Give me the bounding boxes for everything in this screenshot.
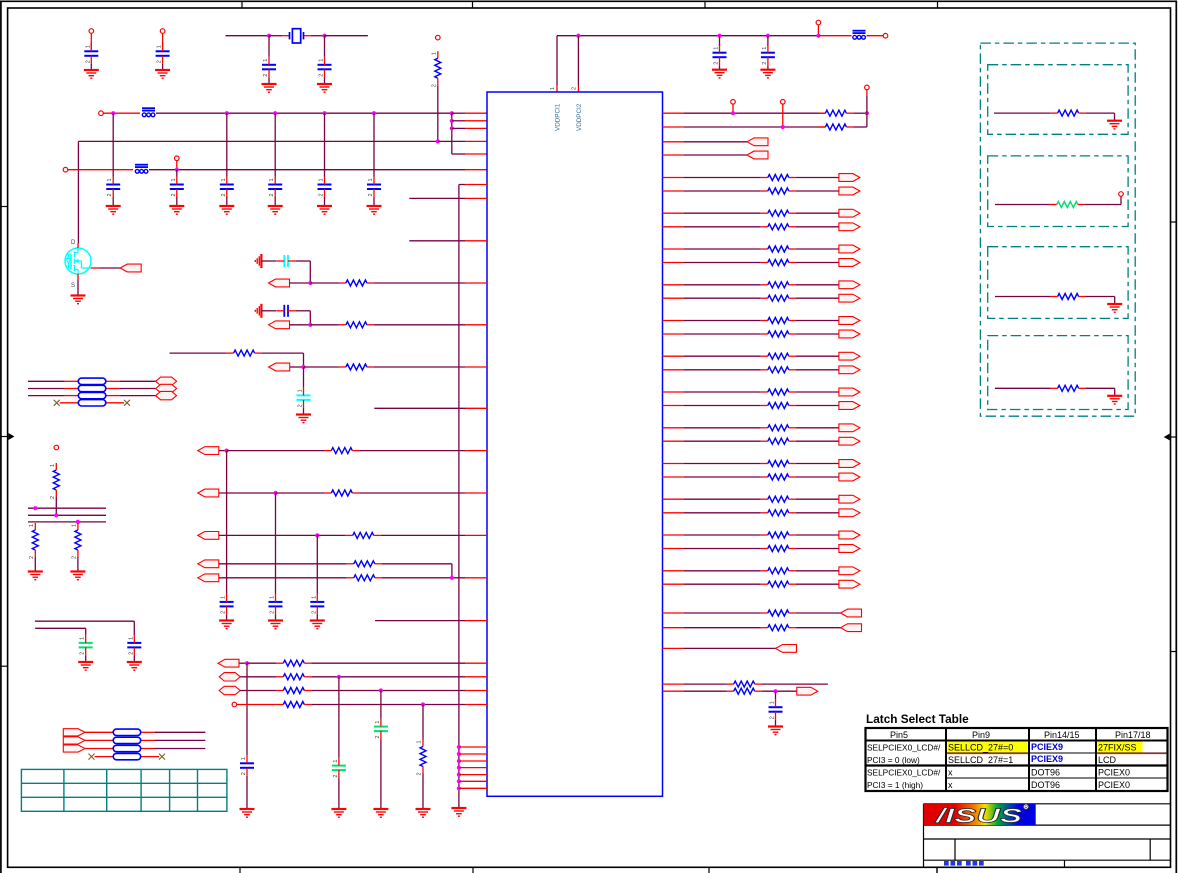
date text: [944, 861, 984, 866]
pin: [663, 262, 685, 264]
ground: [28, 572, 43, 580]
pin: [465, 153, 487, 155]
svg-text:x: x: [948, 768, 953, 778]
connector: [63, 729, 85, 736]
wire: [304, 35, 311, 37]
wire: [274, 113, 276, 176]
wire: [324, 113, 326, 176]
svg-text:2: 2: [311, 611, 317, 614]
resistor R@570.8: [761, 568, 796, 574]
connector: [218, 659, 239, 667]
ground: [255, 304, 261, 318]
svg-text:SELPCIEX0_LCD#/: SELPCIEX0_LCD#/: [867, 768, 941, 778]
connector: [839, 460, 860, 468]
wire: [775, 691, 777, 699]
svg-text:1: 1: [263, 59, 269, 62]
wire: [796, 190, 839, 192]
wire: [269, 35, 282, 37]
junction: [245, 661, 249, 665]
wire: [853, 112, 867, 114]
wire: [68, 169, 133, 171]
pin: [465, 140, 487, 142]
ground: [78, 662, 93, 670]
pin: [459, 774, 487, 776]
wire: [240, 690, 276, 692]
no-connect: [54, 400, 60, 406]
wire: [409, 197, 465, 199]
wire: [796, 427, 839, 429]
svg-text:2: 2: [333, 775, 339, 778]
junction: [308, 323, 312, 327]
wire: [219, 450, 227, 452]
wire: [162, 33, 164, 51]
svg-text:PCIEX9: PCIEX9: [1031, 742, 1063, 752]
resistor R@548.5: [761, 546, 796, 552]
table grid: [21, 769, 227, 811]
wire: [226, 614, 228, 620]
svg-text:1: 1: [770, 701, 776, 704]
pin: [663, 190, 685, 192]
pin: [663, 248, 685, 250]
wire: [422, 774, 424, 810]
pin: [663, 583, 685, 585]
wire: [374, 407, 465, 409]
wire: [409, 240, 465, 242]
svg-text:2: 2: [417, 772, 423, 775]
svg-text:1: 1: [241, 757, 247, 760]
pin: [85, 739, 113, 741]
pin: [465, 704, 487, 706]
ground: [240, 809, 255, 817]
wire: [237, 704, 277, 706]
wire: [684, 112, 825, 114]
pin: [663, 333, 685, 335]
ground: [373, 809, 388, 817]
wire: [796, 498, 839, 500]
connector: [747, 151, 768, 159]
wire: [684, 190, 761, 192]
pin: [465, 492, 487, 494]
wire: [796, 548, 839, 550]
wire: [995, 387, 1051, 389]
pin: [663, 126, 685, 128]
pin: [141, 748, 155, 750]
wire: [422, 705, 424, 740]
connector: [839, 281, 860, 289]
svg-text:1: 1: [298, 389, 304, 392]
ground: [317, 206, 332, 214]
pin: [663, 355, 685, 357]
wire: [295, 260, 310, 262]
junction: [308, 281, 312, 285]
connector: [269, 321, 290, 329]
wire: [170, 352, 227, 354]
dashed option box 1: [988, 65, 1128, 135]
pin: [465, 450, 487, 452]
wire: [684, 534, 761, 536]
capacitor C@374: [367, 177, 381, 198]
ground: [416, 809, 431, 817]
wire: [35, 627, 85, 629]
pin: [663, 627, 685, 629]
resistor R16: [276, 702, 311, 708]
wire: [1114, 113, 1116, 121]
resistor R6: [227, 350, 262, 356]
ground: [219, 621, 234, 629]
wire: [268, 77, 270, 84]
connector: [839, 424, 860, 432]
wire: [120, 380, 156, 382]
resistor R9: [29, 523, 39, 559]
svg-text:2: 2: [80, 652, 86, 655]
svg-text:1: 1: [550, 87, 556, 90]
junction: [315, 533, 319, 537]
resistor R@512.8: [761, 510, 796, 516]
wire: [219, 492, 276, 494]
wire: [796, 284, 839, 286]
pin: [459, 767, 487, 769]
wire: [85, 655, 87, 662]
svg-text:PCIEX0: PCIEX0: [1098, 768, 1130, 778]
wire: [317, 534, 345, 536]
resistor R@477: [761, 474, 796, 480]
wire: [309, 311, 311, 325]
svg-text:DOT96: DOT96: [1031, 768, 1060, 778]
pin: [141, 731, 155, 733]
wire: [451, 564, 453, 578]
terminal P7: [816, 20, 821, 25]
pin: [663, 391, 685, 393]
wire: [359, 450, 465, 452]
wire: [995, 204, 1050, 206]
capacitor C@113.2: [106, 177, 120, 198]
junction: [267, 34, 271, 38]
wire: [684, 126, 825, 128]
svg-text:1: 1: [157, 45, 163, 48]
pin: [465, 534, 487, 536]
wire: [311, 662, 465, 664]
svg-text:1: 1: [128, 637, 134, 640]
wire: [1120, 196, 1122, 204]
wire: [275, 493, 277, 594]
wire: [100, 267, 121, 269]
connector: [839, 259, 860, 267]
resistor R3: [818, 124, 853, 130]
resistor R@427.8: [761, 425, 796, 431]
svg-text:1: 1: [221, 596, 227, 599]
wire: [290, 282, 311, 284]
junction: [781, 125, 785, 129]
resistor R@262.5: [761, 260, 796, 266]
resistor R@499.2: [761, 496, 796, 502]
wire: [276, 492, 325, 494]
wire: [556, 36, 558, 85]
wire: [796, 248, 839, 250]
ground: [127, 662, 142, 670]
connector: [198, 574, 219, 582]
junction: [457, 759, 461, 763]
wire: [1114, 297, 1116, 305]
svg-text:2: 2: [368, 193, 374, 196]
no-connect: [89, 754, 95, 760]
wire: [375, 620, 465, 622]
wire: [176, 161, 178, 170]
wire: [141, 756, 159, 758]
junction: [54, 513, 58, 517]
connector: [198, 489, 219, 497]
terminal P4: [99, 111, 104, 116]
title block: [924, 804, 1171, 873]
connector: [219, 673, 240, 681]
ground: [262, 84, 277, 92]
connector: [269, 279, 290, 287]
wire: [155, 748, 205, 750]
wire: [684, 683, 727, 685]
resistor R@463.5: [761, 461, 796, 467]
junction: [33, 506, 37, 510]
svg-text:VDDPCI1: VDDPCI1: [555, 103, 562, 131]
resistor R19: [1050, 202, 1085, 208]
capacitor C@275.2: [268, 177, 282, 198]
wire: [373, 197, 375, 206]
wire: [381, 534, 465, 536]
wire: [796, 534, 839, 536]
capacitor C@324.5: [318, 177, 332, 198]
wire: [112, 197, 114, 206]
wire: [684, 427, 761, 429]
resistor R@177.5: [761, 175, 796, 181]
wire: [796, 333, 839, 335]
capacitor C4: [318, 57, 332, 78]
svg-text:2: 2: [157, 60, 163, 63]
wire: [282, 35, 289, 37]
pin: [465, 324, 487, 326]
ferrite bead L1: [142, 108, 155, 117]
wire: [78, 140, 437, 142]
connector: [198, 560, 219, 568]
pin: [465, 184, 487, 186]
wire: [311, 704, 465, 706]
svg-text:S: S: [71, 283, 75, 289]
connector: [839, 317, 860, 325]
wire: [684, 284, 761, 286]
pin: [663, 177, 685, 179]
svg-text:PCIEX9: PCIEX9: [1031, 754, 1063, 764]
resistor R21: [1051, 385, 1086, 391]
resistor R@334: [761, 331, 796, 337]
terminal P6: [175, 156, 180, 161]
capacitor C@275.5b: [269, 594, 283, 615]
wire: [684, 583, 761, 585]
svg-text:D: D: [71, 240, 76, 246]
svg-text:LCD: LCD: [1098, 755, 1117, 765]
wire: [55, 497, 57, 515]
connector: [839, 294, 860, 302]
wire: [28, 395, 64, 397]
wire: [452, 127, 465, 129]
wire: [103, 112, 140, 114]
junction: [225, 449, 229, 453]
wire: [796, 212, 839, 214]
wire: [762, 690, 797, 692]
wire: [324, 197, 326, 206]
svg-text:1: 1: [375, 721, 381, 724]
terminal P8: [883, 33, 888, 38]
wire: [796, 226, 839, 228]
wire: [684, 248, 761, 250]
connector: [63, 737, 85, 744]
wire: [325, 35, 368, 37]
svg-text:2: 2: [319, 193, 325, 196]
terminal P3: [436, 35, 441, 40]
bus wire: [28, 514, 106, 516]
wire: [176, 170, 178, 177]
wire: [382, 563, 452, 565]
capacitor C22: [374, 719, 388, 740]
wire: [311, 35, 325, 37]
wire: [995, 296, 1051, 298]
connector: [156, 377, 177, 385]
no-connect: [159, 754, 165, 760]
wire: [1086, 112, 1115, 114]
pin: [663, 534, 685, 536]
wire: [295, 310, 310, 312]
resistor R12: [347, 575, 382, 581]
wire: [85, 628, 87, 635]
svg-text:27FIX/SS: 27FIX/SS: [1098, 743, 1137, 753]
ground: [268, 621, 283, 629]
wire: [684, 262, 761, 264]
resistor R10: [71, 523, 81, 559]
resistor R1: [431, 51, 441, 87]
wire: [684, 612, 761, 614]
svg-text:DOT96: DOT96: [1031, 780, 1060, 790]
wire: [719, 65, 721, 70]
wire: [684, 355, 761, 357]
resistor R@392: [761, 389, 796, 395]
svg-text:1: 1: [29, 524, 35, 527]
junction: [301, 365, 305, 369]
wire: [77, 141, 79, 243]
svg-text:1: 1: [221, 178, 227, 181]
wire: [684, 405, 761, 407]
wire: [268, 36, 270, 57]
wire: [452, 120, 465, 122]
bus wire: [28, 507, 106, 509]
wire: [176, 197, 178, 206]
junction: [717, 34, 721, 38]
pin: [465, 676, 487, 678]
wire: [684, 647, 776, 649]
wire: [796, 320, 839, 322]
wire: [994, 112, 1051, 114]
connector: [156, 384, 177, 392]
pin: [64, 395, 78, 397]
svg-text:Latch Select Table: Latch Select Table: [866, 712, 969, 726]
svg-text:2: 2: [29, 556, 35, 559]
wire: [226, 35, 270, 37]
pin: [465, 120, 487, 122]
svg-text:1: 1: [50, 464, 56, 467]
svg-text:2: 2: [770, 716, 776, 719]
wire: [796, 369, 839, 371]
connector: [776, 645, 797, 653]
terminal P13: [232, 702, 237, 707]
no-connect: [124, 400, 130, 406]
resistor R@356.2: [761, 353, 796, 359]
pin: [465, 282, 487, 284]
connector: [839, 580, 860, 588]
pin: [465, 127, 487, 129]
connector: [156, 391, 177, 399]
capacitor C@226.6b: [220, 594, 234, 615]
wire: [338, 677, 340, 758]
svg-text:2: 2: [298, 404, 304, 407]
ground: [219, 206, 234, 214]
wire: [684, 154, 747, 156]
pin: [577, 85, 579, 92]
wire: [796, 177, 839, 179]
junction: [865, 111, 869, 115]
wire: [149, 169, 465, 171]
wire: [684, 627, 761, 629]
svg-text:2: 2: [71, 556, 77, 559]
connector: [839, 187, 860, 195]
junction: [773, 689, 777, 693]
wire: [684, 141, 747, 143]
wire: [338, 778, 340, 809]
latch select table: [866, 712, 1168, 791]
wire: [239, 662, 247, 664]
wire: [28, 380, 64, 382]
wire: [380, 739, 382, 809]
pin: [465, 240, 487, 242]
wire: [459, 184, 465, 186]
wire: [262, 352, 304, 354]
pin: [459, 760, 487, 762]
svg-text:2: 2: [128, 652, 134, 655]
connector: [839, 567, 860, 575]
wire: [310, 324, 339, 326]
wire: [240, 676, 276, 678]
wire: [246, 663, 248, 755]
wire: [106, 402, 124, 404]
wire: [732, 104, 734, 113]
pin: [663, 512, 685, 514]
wire: [261, 260, 276, 262]
pin: [106, 380, 120, 382]
pin: [663, 683, 685, 685]
wire: [95, 756, 114, 758]
svg-text:1: 1: [311, 596, 317, 599]
wire: [762, 683, 828, 685]
resistor R@283: [339, 280, 374, 286]
terminal P10: [865, 85, 870, 90]
ground: [268, 206, 283, 214]
ground: [310, 621, 325, 629]
pin: [85, 748, 113, 750]
svg-text:2: 2: [171, 193, 177, 196]
wire: [767, 65, 769, 70]
connector: [839, 209, 860, 217]
dashed option box 2: [988, 156, 1128, 227]
connector: [839, 531, 860, 539]
capacitor C@226.8: [220, 177, 234, 198]
svg-text:1: 1: [270, 596, 276, 599]
wire: [577, 36, 579, 85]
wire: [853, 126, 867, 128]
svg-text:2: 2: [431, 84, 437, 87]
